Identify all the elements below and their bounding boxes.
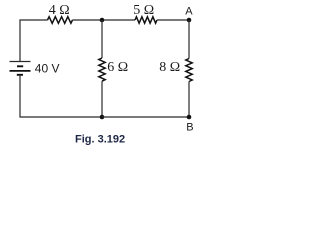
wire node A down to 8ohm [188, 20, 190, 59]
resistor 4 ohm (horizontal zigzag) [48, 17, 73, 24]
wire 5ohm to node A [157, 19, 189, 21]
wire top-left horizontal (TL corner to R 4ohm) [20, 20, 48, 62]
battery 40V (plates) [10, 62, 31, 75]
svg-text:Fig. 3.192: Fig. 3.192 [75, 133, 125, 145]
resistor 6 ohm (vertical zigzag) [99, 58, 105, 81]
svg-text:8 Ω: 8 Ω [159, 60, 180, 75]
wire middle junction to 5ohm [102, 19, 135, 21]
wire bottom middle to node B [102, 116, 189, 118]
wire 4ohm to middle junction [73, 19, 103, 21]
wire middle top junction down to 6ohm [101, 20, 103, 58]
svg-text:5 Ω: 5 Ω [133, 3, 154, 18]
resistor 8 ohm (vertical zigzag) [186, 59, 192, 82]
svg-text:B: B [186, 122, 193, 134]
svg-text:A: A [185, 6, 193, 18]
resistor 5 ohm (horizontal zigzag) [135, 17, 157, 23]
svg-text:6 Ω: 6 Ω [107, 60, 128, 75]
node A junction dot [187, 18, 192, 23]
junction dot bottom middle [100, 115, 105, 120]
svg-text:40 V: 40 V [35, 62, 60, 76]
wire 6ohm down to bottom junction [101, 81, 103, 117]
wire 8ohm down to node B [188, 82, 190, 118]
junction dot top middle [100, 18, 105, 23]
wire battery to bottom-left corner and bottom wire to middle [20, 75, 102, 117]
svg-text:4 Ω: 4 Ω [49, 3, 70, 18]
node B junction dot [187, 115, 192, 120]
